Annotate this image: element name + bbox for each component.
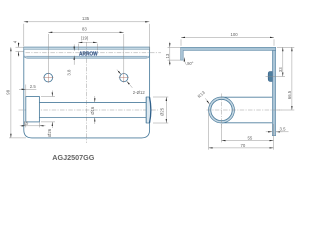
leader 2-O12 lower segment (127, 81, 133, 88)
dim 3.5 text underline (276, 131, 289, 133)
hole right (120, 74, 128, 82)
front view plate outline (24, 47, 150, 138)
svg-text:15: 15 (24, 121, 29, 126)
svg-text:83: 83 (82, 27, 87, 32)
side view plate (272, 51, 275, 136)
dim 2.5 arrow (19, 88, 26, 90)
dim O25 cap ext bottom (153, 122, 168, 124)
dim O16 arrows (94, 96, 96, 102)
dim 4 bottom ext (16, 51, 24, 53)
svg-text:Ø25: Ø25 (159, 107, 164, 116)
dim 135 (24, 21, 150, 23)
front hem fold line lower (25, 55, 149, 57)
dim 55/70 ext right (273, 124, 275, 150)
svg-text:100: 100 (231, 32, 239, 37)
dim 70 (209, 147, 274, 149)
dim 70 ext left (208, 113, 210, 150)
front hem top band (24, 47, 150, 49)
dim O25 cap ext top (153, 96, 168, 98)
cap left vertical (145, 97, 147, 123)
dim 13 ext bottom (168, 59, 181, 61)
front hem centerline (26, 52, 162, 54)
dim 135 ext left (23, 24, 25, 46)
dim 100 ext left (180, 39, 182, 45)
side disc inner (211, 99, 232, 120)
dim O26 ext bottom (41, 121, 55, 123)
hole left (44, 73, 53, 82)
side disc ring tint (210, 98, 234, 122)
side view hem bar and lip (181, 47, 276, 60)
hole left crosshair (43, 73, 53, 83)
svg-text:70: 70 (241, 143, 246, 148)
svg-text:AGJ2507GG: AGJ2507GG (52, 153, 94, 162)
svg-text:66.5: 66.5 (287, 90, 292, 99)
dim 15 ext right (38, 122, 40, 128)
svg-text:90°: 90° (187, 61, 194, 66)
side disc vertical centerline (221, 94, 223, 128)
svg-text:135: 135 (82, 16, 90, 21)
svg-text:13: 13 (165, 53, 170, 58)
svg-text:ARROW: ARROW (79, 51, 98, 57)
svg-text:2.5: 2.5 (30, 84, 37, 89)
hole right ext line (123, 34, 125, 73)
dim 13 ext top (168, 46, 181, 48)
dim 55 ext left (221, 124, 223, 142)
side tube top edge (222, 96, 273, 98)
dim 33/66.5 top ext (277, 46, 294, 48)
hole left ext line (47, 34, 49, 73)
dim 19 ext right (96, 44, 98, 51)
leader 2-O12 upper segment (117, 70, 121, 75)
dim 19 ext left (77, 44, 79, 51)
hole right crosshair (119, 73, 129, 83)
dim 98 bottom ext (9, 137, 26, 139)
cap at tube right end (146, 97, 151, 123)
dim 66.5 bottom ext (277, 109, 294, 111)
dim (19) (78, 41, 97, 43)
dim 66.5 (291, 47, 293, 110)
side tube bottom edge (222, 122, 273, 124)
front plate vertical centerline (86, 42, 88, 143)
dim 135 ext right (148, 24, 150, 51)
dim 100 ext right (273, 39, 275, 45)
angle 90 leader (184, 58, 186, 66)
dim 4 top ext (16, 46, 24, 48)
svg-text:33: 33 (278, 67, 283, 72)
svg-text:3.8: 3.8 (67, 69, 72, 76)
svg-text:3.5: 3.5 (280, 127, 287, 132)
dim 3.8 arrow bottom (73, 56, 75, 65)
dim 83 (48, 31, 124, 33)
cap end arc (150, 97, 151, 123)
dim 2.5 tail (26, 88, 37, 90)
dim 100 (181, 36, 274, 38)
dim 13 (169, 47, 171, 60)
dim 98 (10, 47, 12, 138)
svg-text:55: 55 (248, 135, 253, 140)
tube bottom edge (39, 117, 146, 119)
svg-text:(19): (19) (81, 36, 89, 41)
svg-text:Ø26: Ø26 (47, 128, 52, 137)
dim O26 ext top (41, 96, 55, 98)
dim 15 (26, 125, 40, 127)
tube top edge (39, 101, 146, 103)
dim 15 ext left (25, 122, 27, 128)
leader R13 (205, 98, 209, 104)
svg-text:2-Ø12: 2-Ø12 (133, 90, 146, 95)
side tube centerline (207, 109, 282, 111)
dim 55 (222, 140, 274, 142)
side hole tab (268, 72, 272, 82)
svg-text:Ø16: Ø16 (90, 106, 95, 115)
front tube centerline (19, 109, 159, 111)
svg-text:98: 98 (6, 89, 11, 94)
dim 33 (282, 47, 284, 76)
side disc outer (209, 97, 235, 123)
front hem bottom band fill (27, 56, 148, 58)
dim O25 line (165, 97, 167, 123)
dim 3.5 arrows (266, 131, 273, 133)
dim O26 arrows (51, 91, 53, 97)
front hem bottom edge (24, 54, 150, 58)
dim 4 arrows (18, 42, 20, 47)
dim 2.5 ext (25, 85, 27, 97)
boss block left (26, 97, 40, 122)
side hole centerline (266, 76, 286, 78)
dim 3.8 arrow top (73, 44, 75, 50)
